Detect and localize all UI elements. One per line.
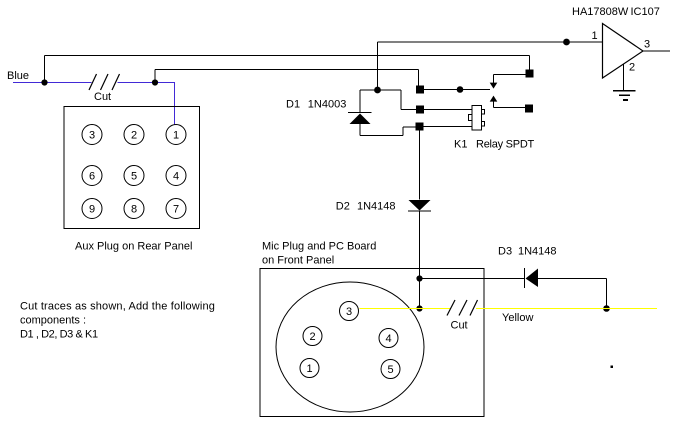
label K1 Relay SPDT [454,139,535,151]
mic pin 4 [379,329,398,348]
mic pin 1 [300,359,319,378]
svg-text:3: 3 [644,39,650,51]
svg-text:1: 1 [592,30,598,42]
svg-text:D1 , D2, D3 & K1: D1 , D2, D3 & K1 [20,329,98,341]
svg-text:D2: D2 [336,201,350,213]
wire D3 tap to D3 cathode [420,278,525,280]
wire net B from blue junction up and across to relay common [155,70,419,86]
wire D1 anode to coil- terminal [360,124,416,136]
svg-text:K1: K1 [454,139,467,151]
svg-text:1N4003: 1N4003 [308,99,347,111]
label IC107 part number [572,6,660,18]
aux pin 2 [124,125,144,145]
relay K1 NO contact arm [490,96,525,108]
wire IC pin 1 horizontal [378,41,603,43]
wire coil- to coil body [424,126,473,128]
wire coil+ to coil body [424,109,472,111]
svg-text:4: 4 [173,171,179,183]
wire pin1 net vertical drop [377,42,379,90]
wire blue drop to aux pin 1 [174,83,176,126]
diode D1 [348,113,372,125]
ground [613,91,636,101]
junction blue wire right [152,79,158,85]
aux pin 8 [124,199,144,219]
label D3 1N4148 [498,246,557,258]
svg-text:IC107: IC107 [631,6,660,18]
svg-text:2: 2 [629,62,635,74]
svg-text:Relay SPDT: Relay SPDT [476,139,535,151]
svg-text:1N4148: 1N4148 [357,201,396,213]
wire yellow segment right [476,308,657,310]
svg-text:1: 1 [306,363,312,375]
stray dot mark [611,366,614,369]
aux pin 7 [166,199,186,219]
wire yellow segment left [360,308,451,310]
wire relay common to armature [424,89,490,91]
svg-text:6: 6 [89,171,95,183]
mic pin 2 [303,327,322,346]
cut marks on yellow wire [447,300,478,316]
wire junction to D1 cathode [360,90,378,113]
svg-text:2: 2 [309,331,315,343]
aux pin 9 [82,199,102,219]
junction D3 tap [416,275,422,281]
node junction coil+ [374,87,381,94]
junction on yellow wire right [603,305,610,312]
svg-text:on Front Panel: on Front Panel [262,255,334,267]
wire coil- terminal down to D2 [419,131,421,200]
wire blue segment left [13,82,92,84]
label D1 1N4003 [286,99,346,111]
svg-text:Cut: Cut [94,91,111,103]
terminal square relay coil+ [416,106,424,114]
svg-text:2: 2 [131,130,137,142]
mic pin 5 [381,360,400,379]
aux pin 6 [82,166,102,186]
svg-text:3: 3 [89,130,95,142]
svg-text:Cut: Cut [451,320,468,332]
wire IC pin 2 to ground [623,64,625,91]
svg-text:5: 5 [131,171,137,183]
wire blue segment right [118,82,175,84]
mic plug box [260,269,484,417]
svg-text:1: 1 [173,130,179,142]
aux pin 1 [166,125,186,145]
svg-text:Blue: Blue [7,70,29,82]
aux pin 3 [82,125,102,145]
svg-text:Yellow: Yellow [502,312,533,324]
svg-text:8: 8 [131,204,137,216]
svg-text:Cut traces as shown, Add the f: Cut traces as shown, Add the following [20,301,215,313]
mic plug circle [276,282,424,412]
junction blue wire left [41,79,47,85]
relay K1 NC contact arm [490,75,526,89]
junction on pin 1 wire [563,39,570,46]
svg-text:D3: D3 [498,246,512,258]
wire net A from blue junction up and across to relay NC [45,56,530,83]
mic pin 3 [340,302,359,321]
wire junction to coil+ terminal [378,90,417,110]
relay K1 coil [469,106,485,131]
cut marks on blue wire [89,74,120,90]
aux plug box [64,107,200,229]
diode D2 [408,200,431,211]
wire IC pin 3 output [643,50,670,52]
terminal square relay NO [525,105,533,113]
svg-text:components :: components : [20,315,86,327]
junction on common wire [457,86,464,93]
diode D3 [525,268,539,288]
svg-text:9: 9 [89,204,95,216]
wire D3 anode to yellow wire [538,279,607,309]
wire D2 cathode down to mic plug pin 3 [419,211,421,309]
terminal square relay common [416,86,424,94]
svg-text:Mic Plug and PC Board: Mic Plug and PC Board [262,241,376,253]
terminal square relay coil- [416,123,424,131]
svg-text:3: 3 [346,306,352,318]
op-amp U IC107 triangle [603,24,644,79]
svg-text:Aux Plug on Rear Panel: Aux Plug on Rear Panel [75,241,192,253]
terminal square relay NC [526,70,534,78]
label D2 1N4148 [336,201,396,213]
svg-text:1N4148: 1N4148 [518,246,557,258]
aux pin 4 [166,166,186,186]
svg-text:7: 7 [173,204,179,216]
svg-text:D1: D1 [286,99,300,111]
aux pin 5 [124,166,144,186]
svg-text:5: 5 [387,364,393,376]
svg-text:HA17808W: HA17808W [572,6,629,18]
svg-text:4: 4 [385,333,391,345]
junction on yellow wire left [416,305,422,311]
